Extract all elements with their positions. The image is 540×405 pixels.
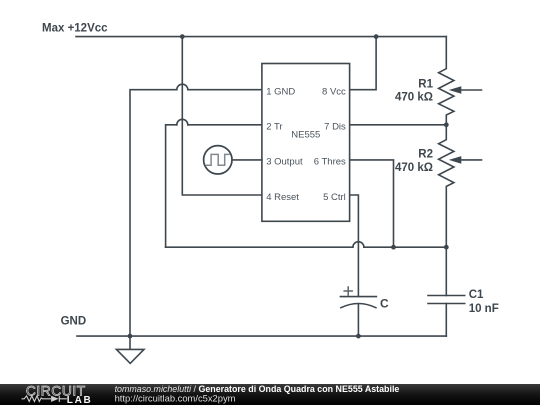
svg-text:10 nF: 10 nF xyxy=(469,303,499,315)
IC U1 NE555 body xyxy=(262,64,350,222)
wire pin 1 GND to ground rail xyxy=(130,90,262,336)
svg-text:GND: GND xyxy=(61,315,87,327)
wire top rail xyxy=(76,36,446,38)
svg-text:http://circuitlab.com/c5x2pym: http://circuitlab.com/c5x2pym xyxy=(115,392,236,403)
wire hop over ctrl drop xyxy=(353,242,364,248)
wire Vcc to pin 4 Reset xyxy=(182,37,262,195)
wire pin 3 Output stub xyxy=(232,159,262,161)
resistor R2 wiper arrow xyxy=(461,159,482,161)
node junction D (R2 bottom / C1) xyxy=(444,245,449,250)
svg-text:NE555: NE555 xyxy=(291,130,320,141)
resistor R1 wiper arrow xyxy=(461,89,482,91)
CircuitLab logo squiggle xyxy=(22,396,67,402)
wire pin 2 Tr xyxy=(166,125,262,247)
wire pin 6 Thres xyxy=(350,160,394,247)
wire hop pin1 over reset drop xyxy=(177,84,188,89)
node junction A (top rail / reset drop) xyxy=(180,34,185,39)
node junction E (R1/R2/Dis) xyxy=(444,122,449,127)
svg-text:R1: R1 xyxy=(418,79,433,91)
ground xyxy=(129,336,131,349)
svg-text:LAB: LAB xyxy=(67,395,93,405)
wire pin 8 Vcc riser xyxy=(350,37,377,90)
svg-text:470 kΩ: 470 kΩ xyxy=(395,162,433,174)
wire hop pin2 over reset drop xyxy=(177,119,188,125)
node junction F (ground symbol tap) xyxy=(128,334,133,339)
node junction C (thres drop) xyxy=(391,245,396,250)
wire pin 5 Ctrl to cap C xyxy=(350,195,359,296)
svg-text:2 Tr: 2 Tr xyxy=(266,122,282,133)
resistor R2 xyxy=(439,125,454,247)
svg-text:470 kΩ: 470 kΩ xyxy=(395,91,433,103)
svg-text:R2: R2 xyxy=(418,149,433,161)
svg-text:Max +12Vcc: Max +12Vcc xyxy=(42,22,108,34)
capacitor C1 xyxy=(445,247,447,295)
square wave probe symbol xyxy=(204,146,232,174)
svg-text:3 Output: 3 Output xyxy=(266,157,303,168)
wire ground rail xyxy=(77,335,446,337)
svg-text:8 Vcc: 8 Vcc xyxy=(322,87,346,98)
svg-text:5 Ctrl: 5 Ctrl xyxy=(323,192,346,203)
svg-text:C1: C1 xyxy=(469,289,484,301)
capacitor C plus sign xyxy=(344,287,352,295)
capacitor C (polarized, on Ctrl) xyxy=(340,296,376,298)
svg-text:4 Reset: 4 Reset xyxy=(266,192,299,203)
wire Tr/Thres/R2 node rail xyxy=(166,246,447,248)
svg-text:1 GND: 1 GND xyxy=(266,87,295,98)
svg-text:C: C xyxy=(380,297,389,311)
resistor R1 xyxy=(439,37,454,125)
svg-text:6 Thres: 6 Thres xyxy=(314,157,346,168)
node junction G (cap C / ground rail) xyxy=(356,334,361,339)
wire pin 7 Dis xyxy=(350,124,447,126)
svg-text:7 Dis: 7 Dis xyxy=(324,122,346,133)
node junction B (top rail / pin8 Vcc) xyxy=(374,34,379,39)
